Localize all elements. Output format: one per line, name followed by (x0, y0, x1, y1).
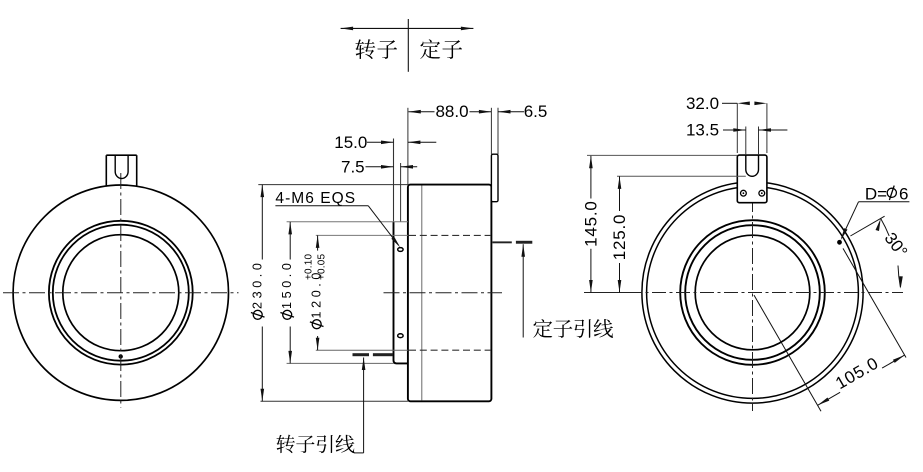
svg-text:D=: D= (865, 184, 887, 203)
svg-text:13.5: 13.5 (686, 121, 719, 140)
svg-text:125.0: 125.0 (610, 214, 629, 261)
svg-text:4-M6 EQS: 4-M6 EQS (275, 190, 356, 207)
svg-text:6.5: 6.5 (524, 102, 548, 121)
svg-text:15.0: 15.0 (334, 133, 367, 152)
svg-text:145.0: 145.0 (581, 200, 600, 247)
svg-text:+0.05: +0.05 (317, 253, 328, 280)
svg-text:6: 6 (899, 184, 908, 203)
svg-text:230.0: 230.0 (250, 259, 264, 309)
svg-text:32.0: 32.0 (686, 94, 719, 113)
svg-text:88.0: 88.0 (435, 102, 468, 121)
svg-text:150.0: 150.0 (280, 259, 294, 309)
svg-text:7.5: 7.5 (341, 157, 365, 176)
svg-text:+0.10: +0.10 (304, 253, 315, 280)
